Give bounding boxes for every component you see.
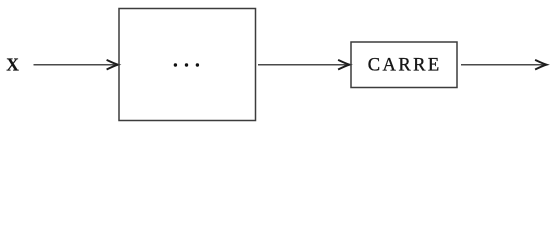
wire: input arrow from X to filter block xyxy=(34,60,119,70)
svg-text:X: X xyxy=(6,54,19,74)
label CARRE xyxy=(368,56,442,76)
ellipsis dots inside filter block xyxy=(174,63,199,66)
node X (input signal label) xyxy=(6,54,19,74)
block: filter (large box) xyxy=(119,9,256,121)
block: CARRE (squarer box) xyxy=(351,42,457,88)
svg-text:CARRE: CARRE xyxy=(368,56,442,76)
wire: arrow from filter block to CARRE block xyxy=(258,60,350,70)
wire: output arrow from CARRE block xyxy=(461,60,547,70)
